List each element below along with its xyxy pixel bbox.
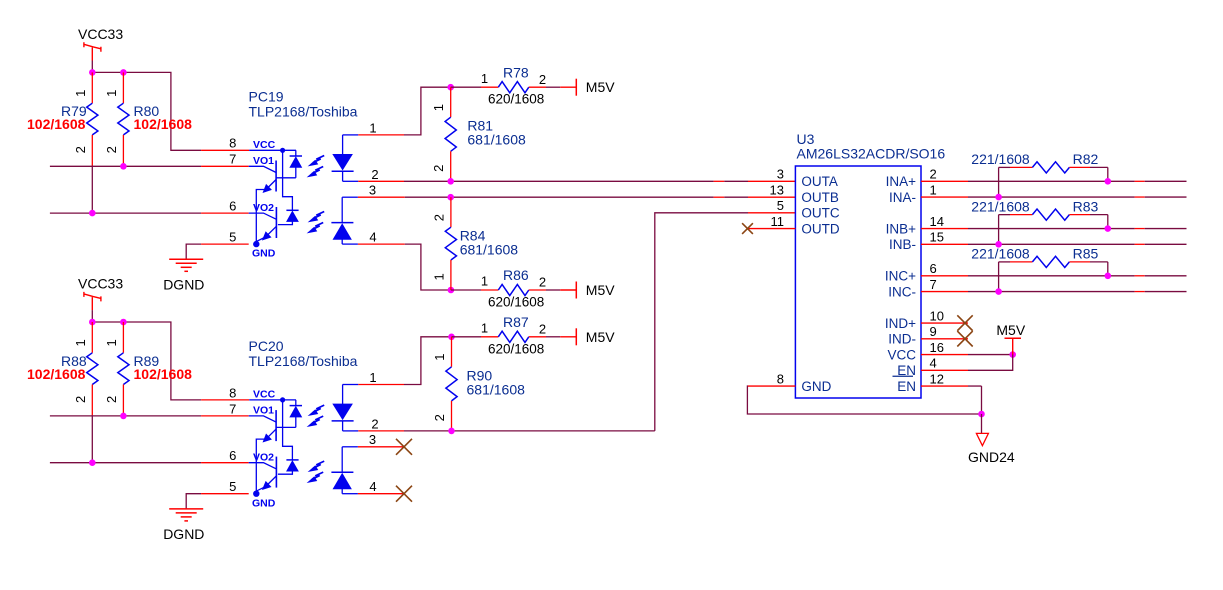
svg-text:2: 2 (930, 167, 937, 182)
no-connect X at U3 pin 9 (957, 331, 972, 346)
svg-text:PC19: PC19 (249, 89, 284, 105)
optocoupler PC20 pin 1 stub (343, 370, 404, 385)
junction at R79 top (89, 69, 96, 76)
svg-text:GND: GND (252, 248, 276, 260)
resistor R82 221/1608 (971, 151, 1108, 173)
svg-text:OUTA: OUTA (801, 174, 838, 189)
svg-text:1: 1 (369, 370, 376, 385)
wire opto pin5 to DGND (186, 494, 201, 509)
svg-text:IND-: IND- (888, 332, 916, 347)
U3 pin 8 GND (748, 371, 832, 393)
wire U3 pin12 to GND net (968, 386, 985, 417)
wire net INC- line to right edge (968, 291, 1187, 293)
wire net INB- line to right edge (968, 243, 1187, 245)
optocoupler PC20 pin 3 stub (342, 432, 405, 447)
svg-text:VCC: VCC (253, 139, 276, 151)
svg-text:681/1608: 681/1608 (460, 242, 519, 258)
optocoupler PC19 pin 8 VCC stub (201, 136, 275, 151)
optocoupler PC19 pin 6 VO2 stub (201, 199, 274, 214)
wire R83 left lead to lower line (995, 215, 1002, 248)
optocoupler PC19 pin 3 stub (342, 182, 405, 197)
svg-text:INB-: INB- (889, 237, 916, 252)
svg-text:M5V: M5V (586, 282, 615, 298)
svg-text:VCC33: VCC33 (78, 275, 123, 291)
optocoupler PC20 pin 7 VO1 stub (201, 401, 274, 416)
svg-text:15: 15 (930, 230, 944, 245)
svg-text:12: 12 (930, 371, 944, 386)
svg-text:VCC: VCC (253, 389, 276, 401)
svg-text:4: 4 (369, 479, 376, 494)
svg-text:VO1: VO1 (253, 155, 274, 167)
wire net VO2 line (50, 210, 201, 217)
svg-text:4: 4 (369, 229, 376, 244)
ground DGND (163, 509, 204, 542)
wire net VO1 line (50, 163, 201, 170)
power symbol VCC33 (78, 26, 123, 73)
resistor R90 681/1608 (432, 337, 525, 431)
svg-text:2: 2 (104, 146, 119, 153)
svg-text:INB+: INB+ (886, 221, 917, 236)
power symbol M5V at U3 (996, 322, 1025, 355)
no-connect X at PC20 pin3 (396, 439, 412, 455)
svg-text:681/1608: 681/1608 (467, 132, 526, 148)
svg-text:R87: R87 (503, 314, 529, 330)
svg-text:IND+: IND+ (885, 316, 916, 331)
junction R78/R81 (447, 84, 454, 91)
U3 pin 16 VCC (887, 340, 968, 362)
svg-text:2: 2 (73, 396, 88, 403)
svg-text:221/1608: 221/1608 (971, 246, 1030, 262)
U3 pin 6 INC+ (885, 261, 968, 283)
wire R82 left lead to lower line (995, 167, 1002, 200)
svg-text:7: 7 (930, 277, 937, 292)
svg-text:8: 8 (229, 385, 236, 400)
svg-text:1: 1 (369, 121, 376, 136)
optocoupler PC20 LED2 (331, 447, 353, 494)
power symbol GND24 (968, 414, 1015, 465)
junction at R88 top (89, 319, 96, 326)
optocoupler PC20 pin 6 VO2 stub (201, 448, 274, 463)
svg-text:R85: R85 (1073, 246, 1099, 262)
svg-text:681/1608: 681/1608 (467, 381, 526, 397)
svg-text:8: 8 (229, 136, 236, 151)
optocoupler PC20 TLP2168 label (249, 338, 358, 369)
svg-text:10: 10 (930, 308, 944, 323)
resistor R83 221/1608 (971, 198, 1108, 220)
resistor R79 102/1608 (27, 72, 98, 165)
svg-text:620/1608: 620/1608 (488, 295, 544, 310)
svg-text:VCC33: VCC33 (78, 26, 123, 42)
svg-text:1: 1 (431, 104, 446, 111)
junction at R80 top (120, 69, 127, 76)
wire U3 pin4 to M5V (968, 355, 1013, 371)
wire U3 pin8 GND to GND24 (747, 386, 981, 414)
svg-text:1: 1 (930, 182, 937, 197)
svg-text:8: 8 (777, 371, 784, 386)
op-amp U3 AM26LS32ACDR/SO16 body (795, 131, 945, 398)
U3 pin 1 INA- (889, 182, 968, 204)
power symbol VCC33 (78, 275, 123, 322)
svg-text:2: 2 (371, 417, 378, 432)
svg-text:M5V: M5V (586, 79, 615, 95)
wire PC19 pin4 to R84/R86 junction (405, 244, 451, 290)
svg-text:PC20: PC20 (249, 338, 284, 354)
resistor R81 681/1608 (431, 87, 526, 181)
wire R88 bottom to VO2 net (91, 415, 93, 463)
svg-text:5: 5 (777, 198, 784, 213)
svg-text:16: 16 (930, 340, 944, 355)
U3 pin 14 INB+ (886, 214, 968, 236)
optocoupler PC19 pin 2 stub (343, 167, 404, 182)
wire PC19 pin1 to R78/R81 junction (404, 87, 451, 135)
svg-text:1: 1 (481, 321, 488, 336)
svg-text:1: 1 (431, 273, 446, 280)
svg-text:1: 1 (73, 90, 88, 97)
svg-text:DGND: DGND (163, 276, 204, 292)
optocoupler PC19 light arrows channel 1 (308, 156, 324, 177)
resistor R80 102/1608 (104, 72, 192, 166)
no-connect X at PC20 pin4 (396, 486, 412, 502)
svg-text:2: 2 (432, 414, 447, 421)
U3 pin 4 EN (897, 356, 968, 378)
svg-text:3: 3 (777, 167, 784, 182)
svg-text:1: 1 (481, 274, 488, 289)
optocoupler PC19 TLP2168 label (249, 89, 358, 120)
power symbol M5V at R87 (560, 328, 615, 345)
optocoupler PC20 pin 2 stub (343, 417, 404, 432)
wire R83 right lead to upper line (1105, 215, 1112, 232)
svg-text:6: 6 (229, 448, 236, 463)
optocoupler PC19 pin 5 GND stub (201, 230, 276, 260)
svg-text:INA+: INA+ (886, 174, 917, 189)
svg-text:M5V: M5V (996, 322, 1025, 338)
svg-text:EN: EN (897, 379, 916, 394)
svg-text:2: 2 (431, 165, 446, 172)
svg-text:2: 2 (539, 72, 546, 87)
optocoupler PC20 pin 4 stub (342, 479, 405, 494)
wire R85 left lead to lower line (995, 262, 1002, 295)
U3 pin 9 IND- (888, 324, 968, 346)
svg-text:INC+: INC+ (885, 269, 916, 284)
svg-text:INA-: INA- (889, 190, 916, 205)
svg-text:9: 9 (930, 324, 937, 339)
svg-text:GND: GND (801, 379, 831, 394)
wire net INA- line to right edge (968, 196, 1187, 198)
svg-text:620/1608: 620/1608 (488, 341, 544, 356)
svg-text:102/1608: 102/1608 (134, 366, 193, 382)
wire VCC33 rail to R79/R80 and opto pin8 (92, 72, 201, 150)
svg-text:3: 3 (369, 432, 376, 447)
wire U3 pin16 to M5V (968, 351, 1016, 358)
svg-text:5: 5 (229, 230, 236, 245)
resistor R85 221/1608 (971, 246, 1108, 268)
U3 pin 10 IND+ (885, 308, 968, 330)
resistor R88 102/1608 (27, 322, 98, 415)
svg-text:1: 1 (481, 71, 488, 86)
optocoupler PC19 LED1 (332, 135, 354, 181)
resistor R89 102/1608 (104, 322, 192, 416)
svg-text:14: 14 (930, 214, 944, 229)
wire R85 right lead to upper line (1105, 262, 1112, 279)
optocoupler PC20 LED1 (332, 385, 354, 431)
svg-text:221/1608: 221/1608 (971, 151, 1030, 167)
svg-text:DGND: DGND (163, 526, 204, 542)
optocoupler PC19 pin 4 stub (342, 229, 405, 244)
svg-text:INC-: INC- (888, 284, 916, 299)
junction at R89 top (120, 319, 127, 326)
wire net OUTC from PC20 pin2 to U3 pin5 (404, 213, 795, 434)
svg-text:OUTC: OUTC (801, 206, 839, 221)
svg-text:OUTD: OUTD (801, 221, 839, 236)
svg-text:GND: GND (252, 497, 276, 509)
optocoupler PC20 light arrows channel 2 (308, 461, 324, 482)
optocoupler PC20 pin 8 VCC stub (201, 385, 275, 400)
svg-text:13: 13 (770, 182, 784, 197)
svg-text:GND24: GND24 (968, 449, 1015, 465)
svg-text:2: 2 (371, 167, 378, 182)
U3 pin 11 OUTD (748, 214, 840, 236)
wire PC20 pin1 to R87/R90 junction (404, 337, 452, 385)
resistor R86 620/1608 (451, 267, 560, 309)
optocoupler PC19 pin 7 VO1 stub (201, 152, 274, 167)
wire R79 bottom to VO2 net (91, 166, 93, 214)
U3 pin 2 INA+ (886, 167, 968, 189)
ground DGND (163, 259, 204, 292)
svg-text:6: 6 (229, 199, 236, 214)
resistor R84 681/1608 (431, 197, 518, 290)
wire VCC33 rail to R88/R89 and opto pin8 (92, 322, 201, 400)
svg-text:TLP2168/Toshiba: TLP2168/Toshiba (249, 104, 358, 120)
svg-text:2: 2 (539, 321, 546, 336)
svg-text:1: 1 (104, 90, 119, 97)
svg-text:1: 1 (432, 354, 447, 361)
svg-text:6: 6 (930, 261, 937, 276)
wire net OUTB from PC19 pin3 to U3 pin13 (405, 194, 796, 201)
wire net VO1 line (50, 413, 201, 420)
power symbol M5V at R78 (560, 79, 615, 96)
wire R82 right lead to upper line (1105, 167, 1112, 184)
no-connect X at U3 pin 11 OUTD (742, 223, 753, 234)
svg-text:1: 1 (104, 339, 119, 346)
svg-text:2: 2 (104, 396, 119, 403)
optocoupler PC20 output transistors and photodiodes (249, 397, 302, 497)
svg-text:2: 2 (73, 146, 88, 153)
optocoupler PC19 output transistors and photodiodes (249, 148, 302, 248)
wire net INB+ line to right edge (968, 228, 1187, 230)
resistor R87 620/1608 (452, 314, 561, 356)
U3 pin 15 INB- (889, 230, 968, 252)
wire net VO2 line (50, 459, 201, 466)
wire net OUTA from PC19 pin2 to U3 pin3 (404, 178, 795, 185)
junction R87/R90 (448, 334, 455, 341)
svg-text:M5V: M5V (586, 329, 615, 345)
svg-text:7: 7 (229, 401, 236, 416)
svg-text:VO1: VO1 (253, 405, 274, 417)
svg-text:11: 11 (771, 214, 785, 229)
svg-text:AM26LS32ACDR/SO16: AM26LS32ACDR/SO16 (797, 146, 946, 162)
wire net INA+ line to right edge (968, 180, 1187, 182)
no-connect X at U3 pin 10 (957, 315, 972, 330)
U3 pin 7 INC- (888, 277, 968, 299)
svg-text:102/1608: 102/1608 (27, 116, 86, 132)
U3 pin 5 OUTC (777, 198, 840, 220)
svg-text:620/1608: 620/1608 (488, 92, 544, 107)
optocoupler PC20 pin 5 GND stub (201, 479, 276, 509)
wire net INC+ line to right edge (968, 275, 1187, 277)
svg-text:VCC: VCC (887, 347, 916, 362)
power symbol M5V at R86 (560, 282, 615, 299)
svg-text:OUTB: OUTB (801, 190, 839, 205)
resistor R78 620/1608 (451, 64, 561, 106)
junction R84/R86 (448, 287, 455, 294)
optocoupler PC19 pin 1 stub (343, 121, 404, 136)
svg-text:102/1608: 102/1608 (27, 366, 86, 382)
svg-text:221/1608: 221/1608 (971, 198, 1030, 214)
svg-text:2: 2 (431, 214, 446, 221)
svg-text:4: 4 (930, 356, 937, 371)
optocoupler PC19 LED2 (331, 197, 353, 244)
svg-text:R82: R82 (1073, 151, 1099, 167)
svg-text:2: 2 (539, 275, 546, 290)
U3 pin 13 OUTB (770, 182, 839, 204)
optocoupler PC20 light arrows channel 1 (308, 405, 324, 426)
svg-text:R83: R83 (1073, 198, 1099, 214)
svg-text:TLP2168/Toshiba: TLP2168/Toshiba (249, 353, 358, 369)
U3 pin 3 OUTA (777, 167, 838, 189)
wire opto pin5 to DGND (186, 244, 201, 259)
svg-text:1: 1 (73, 339, 88, 346)
svg-text:5: 5 (229, 479, 236, 494)
U3 pin 12 EN (893, 371, 969, 393)
optocoupler PC19 light arrows channel 2 (308, 212, 324, 233)
svg-text:102/1608: 102/1608 (134, 116, 193, 132)
svg-text:3: 3 (369, 182, 376, 197)
svg-text:7: 7 (229, 152, 236, 167)
svg-text:R86: R86 (503, 267, 529, 283)
svg-text:R78: R78 (503, 64, 529, 80)
